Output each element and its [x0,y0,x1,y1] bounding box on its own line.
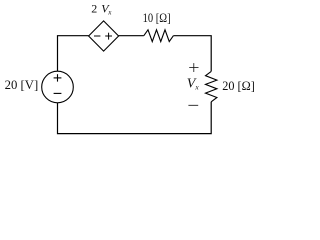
wire: left rail upper + top-left segment [58,36,89,72]
dependent source U1 (diamond, 2 Vx) [89,21,119,51]
svg-text:20 [Ω]: 20 [Ω] [222,79,255,93]
svg-text:x: x [194,83,199,92]
resistor R2 (20 ohm) [206,71,217,101]
resistor R1 (10 ohm) [144,30,174,42]
V1 plus sign [54,74,62,81]
node plus (Vx polarity) [189,63,198,72]
svg-text:20 [V]: 20 [V] [5,78,39,92]
wire: R1 to top-right corner + right rail upper [173,36,211,72]
svg-text:2: 2 [91,2,97,16]
label 2 Vx [91,2,112,17]
U1 minus sign [94,35,100,37]
voltage source V1 (20 V) [42,71,74,103]
V1 minus sign [54,92,62,94]
wire: diamond to R1 [119,35,144,37]
svg-text:10 [Ω]: 10 [Ω] [143,11,171,25]
U1 plus sign [105,33,112,40]
wire: right rail lower + bottom wire + left rail lower [58,102,212,134]
label Vx (voltage across R2) [187,76,200,91]
node minus (Vx polarity) [188,104,198,106]
